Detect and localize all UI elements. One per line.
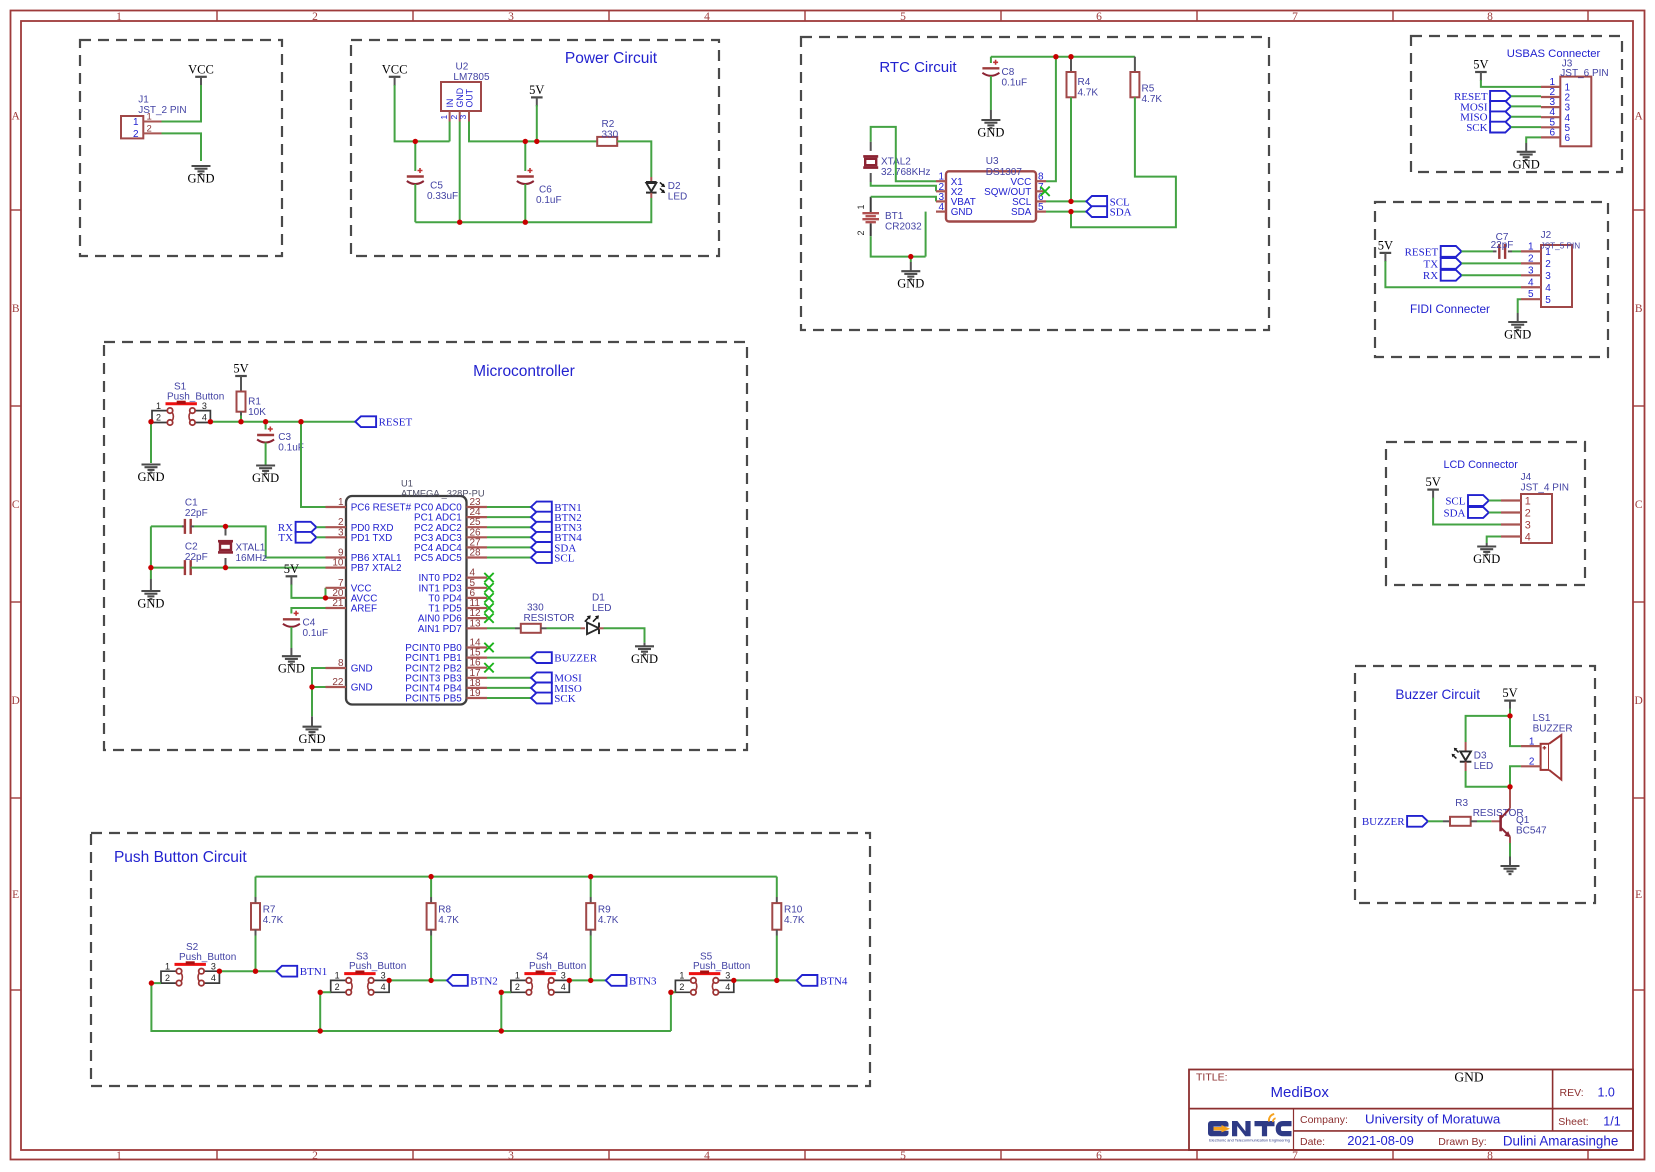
svg-text:Electronic and Telecommunicati: Electronic and Telecommunication Enginee… — [1209, 1137, 1290, 1142]
junction — [208, 419, 213, 424]
svg-text:CR2032: CR2032 — [885, 221, 922, 232]
net label BTN4 — [797, 975, 848, 987]
net label BTN3 — [606, 975, 657, 987]
wire U1 pin 17 to MOSI — [487, 677, 531, 679]
capacitor C2 — [185, 560, 191, 575]
title block — [1189, 1070, 1633, 1151]
svg-text:7: 7 — [1292, 1150, 1298, 1162]
svg-text:RESISTOR: RESISTOR — [524, 613, 575, 624]
LED D1 — [585, 615, 599, 634]
wire S2 to bottom bus — [151, 983, 671, 1031]
wire C1-C2 left join — [150, 526, 152, 579]
net label BTN3 micro pin 25 — [531, 522, 582, 534]
ground J4 — [1473, 547, 1500, 567]
svg-text:B: B — [12, 303, 20, 315]
svg-text:GND: GND — [897, 277, 924, 291]
svg-text:1: 1 — [1525, 495, 1531, 507]
junction — [428, 978, 433, 983]
wire VBAT — [871, 197, 936, 202]
wire D3 cathode to collector node — [1466, 771, 1510, 787]
junction — [1507, 784, 1512, 789]
resistor R1 — [237, 392, 246, 412]
svg-text:4.7K: 4.7K — [1078, 87, 1099, 98]
ground J2 — [1504, 322, 1531, 342]
capacitor C4 — [283, 611, 300, 627]
junction — [318, 990, 323, 995]
capacitor C6 0.1uF — [524, 141, 526, 171]
junction — [253, 969, 258, 974]
svg-text:J2: J2 — [1541, 230, 1552, 241]
ground C8 — [977, 120, 1004, 140]
wire TX to J2 — [1462, 262, 1522, 264]
svg-text:0.33uF: 0.33uF — [427, 191, 458, 202]
wire R8 bottom — [430, 936, 432, 981]
wire S2 out to BTN1 — [219, 970, 276, 972]
junction — [523, 220, 528, 225]
capacitor C5 0.33uF — [414, 141, 416, 171]
svg-text:5V: 5V — [529, 83, 544, 97]
svg-text:22: 22 — [332, 677, 344, 688]
wire J1 pin 2 to ground — [162, 133, 202, 161]
svg-text:AREF: AREF — [351, 604, 377, 615]
capacitor C2 22pF — [151, 567, 185, 569]
USBAS Connecter block — [1411, 36, 1622, 172]
svg-text:4: 4 — [725, 982, 730, 992]
Microcontroller block — [104, 342, 747, 750]
wire R5 to SDA net — [1071, 97, 1176, 227]
svg-text:2: 2 — [133, 129, 139, 140]
wire MOSI to J3 — [1511, 105, 1541, 107]
capacitor C7 22pF — [1462, 250, 1494, 252]
svg-text:JST_2 PIN: JST_2 PIN — [138, 105, 186, 116]
junction — [309, 684, 314, 689]
svg-text:GND: GND — [1454, 1070, 1483, 1085]
wire C1 to XTAL1 node and pin 9 — [194, 526, 326, 557]
svg-text:1: 1 — [156, 401, 161, 411]
svg-text:RESET: RESET — [1405, 246, 1439, 258]
svg-text:Push_Button: Push_Button — [693, 961, 750, 972]
svg-text:BTN3: BTN3 — [629, 975, 657, 987]
net label TX micro — [278, 532, 316, 544]
power 5V LCD — [1425, 475, 1440, 499]
junction — [223, 565, 228, 570]
svg-text:1: 1 — [515, 971, 520, 981]
wire R2 to D2 — [617, 141, 651, 177]
net label SCL RTC — [1086, 196, 1130, 208]
resistor R3 — [1450, 817, 1471, 826]
net label RESET USBAS — [1454, 91, 1511, 103]
svg-text:GND: GND — [187, 172, 214, 186]
svg-text:GND: GND — [298, 732, 325, 746]
wire RESET rail — [210, 421, 355, 423]
resistor R9 — [586, 903, 595, 930]
svg-text:E: E — [12, 889, 19, 901]
svg-text:PCINT5 PB5: PCINT5 PB5 — [405, 694, 462, 705]
svg-text:IN: IN — [445, 99, 455, 108]
svg-text:1: 1 — [1529, 737, 1535, 748]
net label SDA LCD — [1443, 507, 1488, 519]
svg-text:B: B — [1635, 303, 1643, 315]
svg-text:2: 2 — [156, 412, 161, 422]
svg-text:PD1 TXD: PD1 TXD — [351, 533, 393, 544]
svg-text:2: 2 — [515, 982, 520, 992]
net label BUZZER buzzer-circuit — [1362, 816, 1428, 828]
svg-text:OUT: OUT — [464, 88, 474, 107]
svg-text:1: 1 — [856, 204, 866, 209]
push button S3 — [331, 951, 407, 995]
capacitor C5 — [407, 168, 424, 184]
capacitor C3 — [257, 427, 274, 443]
wire pin 13 to resistor — [487, 627, 515, 629]
resistor R2 — [597, 137, 617, 146]
svg-text:MediBox: MediBox — [1271, 1084, 1330, 1101]
svg-text:1: 1 — [679, 971, 684, 981]
svg-text:2: 2 — [165, 973, 170, 983]
svg-text:10: 10 — [332, 558, 344, 569]
junction — [588, 874, 593, 879]
svg-text:RESET: RESET — [379, 417, 413, 429]
wire GND pin 8 — [312, 668, 326, 687]
svg-text:5: 5 — [900, 11, 906, 23]
svg-text:4: 4 — [211, 973, 216, 983]
wire to RTC ground — [910, 257, 912, 262]
wire U3 SDA to label — [1046, 211, 1086, 213]
svg-text:5V: 5V — [284, 562, 299, 576]
ground Q1 — [1501, 866, 1520, 874]
svg-text:8: 8 — [338, 658, 344, 669]
svg-text:Buzzer Circuit: Buzzer Circuit — [1395, 687, 1480, 702]
J1 connector block — [80, 40, 282, 256]
wire S1 to ground — [151, 422, 152, 463]
svg-text:SCK: SCK — [1466, 122, 1487, 134]
svg-text:3: 3 — [1525, 519, 1531, 531]
svg-text:Push_Button: Push_Button — [167, 391, 224, 402]
svg-text:BC547: BC547 — [1516, 825, 1547, 836]
svg-text:6: 6 — [1565, 133, 1571, 144]
svg-text:28: 28 — [470, 548, 482, 559]
no-connect U1 pin 5 — [484, 583, 493, 592]
junction — [148, 419, 153, 424]
svg-text:5V: 5V — [1473, 58, 1488, 72]
svg-text:2: 2 — [335, 982, 340, 992]
svg-text:Push_Button: Push_Button — [349, 961, 406, 972]
svg-text:R3: R3 — [1455, 798, 1468, 809]
buzzer LS1 — [1521, 713, 1573, 780]
Push Button Circuit block — [91, 833, 870, 1086]
wire AREF to C4 — [291, 608, 325, 614]
wire J3 pin 6 to ground — [1526, 137, 1541, 143]
power 5V avcc — [284, 562, 299, 586]
svg-text:SDA: SDA — [1011, 207, 1032, 218]
wire TX to pin 3 — [316, 536, 325, 538]
svg-text:4: 4 — [1525, 531, 1531, 543]
wire R7 top — [255, 877, 257, 897]
capacitor C8 — [982, 60, 999, 76]
capacitor C3 0.1uF — [265, 422, 267, 430]
capacitor C7 — [1499, 244, 1505, 259]
ground U1 — [298, 727, 325, 747]
svg-text:1: 1 — [116, 11, 122, 23]
wire U1 pin 26 to BTN4 — [487, 536, 531, 538]
ground D1 — [631, 646, 658, 666]
net label BTN1 — [276, 966, 327, 978]
wire R10 bottom — [776, 936, 778, 981]
svg-text:GND: GND — [951, 207, 973, 218]
svg-text:BTN4: BTN4 — [820, 975, 848, 987]
wire RESET to J3 — [1511, 95, 1541, 97]
wire 5V to J3 pin 1 — [1481, 80, 1541, 87]
wire 5V to J4 pin 3 — [1433, 498, 1501, 525]
net label SCK USBAS — [1466, 122, 1511, 134]
svg-text:4: 4 — [202, 412, 207, 422]
svg-text:2: 2 — [1528, 253, 1534, 264]
wire R8 top — [430, 877, 432, 897]
FIDI Connecter block — [1375, 202, 1608, 357]
wire GND pin 22 — [312, 687, 326, 716]
wire VCC to J1 pin 1 — [162, 85, 202, 122]
svg-text:5: 5 — [1038, 202, 1044, 213]
svg-text:5: 5 — [1545, 295, 1551, 306]
svg-text:4: 4 — [561, 982, 566, 992]
wire 5V down — [1509, 709, 1511, 716]
resistor R4 4.7K — [1070, 57, 1072, 72]
svg-text:1.0: 1.0 — [1598, 1086, 1615, 1100]
svg-text:6: 6 — [1096, 1150, 1102, 1162]
svg-text:C: C — [12, 499, 20, 511]
svg-text:JST_6 PIN: JST_6 PIN — [1560, 68, 1608, 79]
resistor R7 — [251, 903, 260, 930]
svg-text:3: 3 — [1545, 271, 1551, 282]
svg-text:1: 1 — [133, 117, 139, 128]
wire RESET drop to pin 1 — [301, 422, 326, 507]
net label RESET micro — [355, 416, 412, 428]
net label BTN2 — [447, 975, 498, 987]
svg-text:10K: 10K — [248, 407, 266, 418]
svg-text:0.1uF: 0.1uF — [1002, 77, 1028, 88]
IC U1 ATMEGA_328P-PU — [326, 479, 488, 705]
svg-text:GND: GND — [977, 126, 1004, 140]
junction — [1068, 199, 1073, 204]
junction — [413, 139, 418, 144]
junction — [318, 1028, 323, 1033]
wire to D3 anode — [1466, 716, 1510, 742]
wire U1 pin 23 to BTN1 — [487, 506, 531, 508]
svg-text:5: 5 — [900, 1150, 906, 1162]
push button S4 — [511, 951, 586, 995]
wire S4 out to BTN3 — [569, 979, 605, 981]
ground J3 — [1513, 152, 1540, 172]
svg-text:FIDI Connecter: FIDI Connecter — [1410, 302, 1490, 316]
transistor Q1 BC547 — [1491, 787, 1547, 843]
wire U1 pin 25 to BTN3 — [487, 526, 531, 528]
svg-text:2: 2 — [312, 11, 318, 23]
svg-text:3: 3 — [338, 527, 344, 538]
wire J4 pin 4 to ground — [1487, 537, 1501, 544]
svg-text:1: 1 — [116, 1150, 122, 1162]
power 5V micro — [233, 362, 248, 386]
svg-text:D: D — [1635, 695, 1643, 707]
net label SCL micro pin 28 — [531, 552, 575, 564]
wire battery to ground rail — [871, 236, 926, 256]
wire MISO to J3 — [1511, 116, 1541, 118]
svg-text:University of Moratuwa: University of Moratuwa — [1365, 1112, 1501, 1127]
svg-text:GND: GND — [1473, 552, 1500, 566]
svg-text:22pF: 22pF — [185, 508, 208, 519]
svg-text:6: 6 — [1096, 11, 1102, 23]
power VCC J1 — [188, 62, 214, 86]
junction — [217, 969, 222, 974]
svg-text:3: 3 — [508, 11, 514, 23]
power 5V FIDI — [1378, 238, 1393, 262]
svg-text:USBAS Connecter: USBAS Connecter — [1507, 48, 1601, 60]
junction — [149, 980, 154, 985]
svg-text:C: C — [1635, 499, 1643, 511]
svg-text:5: 5 — [1528, 289, 1534, 300]
wire RX to pin 2 — [316, 526, 325, 528]
ENTC logo — [1208, 1114, 1292, 1142]
svg-text:E: E — [1635, 889, 1642, 901]
svg-text:6: 6 — [1549, 127, 1555, 138]
crystal XTAL1 — [218, 541, 233, 552]
net label RESET FIDI — [1405, 246, 1462, 258]
svg-text:BTN1: BTN1 — [300, 966, 328, 978]
regulator U2 LM7805 — [439, 62, 490, 122]
svg-text:2: 2 — [1525, 507, 1531, 519]
capacitor C6 — [517, 168, 534, 184]
wire S4 to bottom bus — [501, 992, 511, 1031]
svg-text:4: 4 — [938, 202, 944, 213]
svg-text:PC6 RESET#: PC6 RESET# — [351, 503, 412, 514]
net label SCL LCD — [1445, 495, 1488, 507]
svg-text:REV:: REV: — [1560, 1087, 1584, 1099]
svg-text:4: 4 — [1528, 277, 1534, 288]
wire R4 to SCL net — [1070, 97, 1072, 201]
svg-text:4: 4 — [704, 11, 710, 23]
svg-text:4: 4 — [381, 982, 386, 992]
wire U2 GND pin down — [459, 122, 461, 223]
wire S5 to bottom bus — [671, 992, 676, 1031]
no-connect U1 pin 4 — [484, 573, 493, 582]
svg-text:GND: GND — [137, 597, 164, 611]
net label SDA RTC — [1086, 206, 1131, 218]
wire 5V to AVCC/VCC — [291, 585, 325, 598]
wire S5 out to BTN4 — [734, 979, 797, 981]
svg-text:3: 3 — [458, 115, 468, 120]
svg-text:VCC: VCC — [382, 62, 408, 76]
junction — [1507, 713, 1512, 718]
wire D1 to ground — [604, 628, 645, 642]
svg-text:Microcontroller: Microcontroller — [473, 363, 575, 380]
net label RX micro — [278, 522, 317, 534]
svg-text:5V: 5V — [1425, 475, 1440, 489]
svg-text:Push_Button: Push_Button — [179, 952, 236, 963]
svg-text:U2: U2 — [456, 62, 469, 73]
svg-text:2: 2 — [679, 982, 684, 992]
ground S1 — [137, 465, 164, 485]
svg-text:5V: 5V — [233, 362, 248, 376]
crystal XTAL2 32.768KHz — [870, 142, 872, 151]
power VCC power-circuit — [382, 62, 408, 86]
wire C2 to pin 10 — [191, 567, 326, 569]
svg-text:U3: U3 — [986, 156, 999, 167]
power 5V USBAS — [1473, 58, 1488, 82]
wire U1 pin 24 to BTN2 — [487, 516, 531, 518]
junction — [428, 874, 433, 879]
wire D2 to bottom rail — [415, 198, 651, 222]
wire R9 top — [590, 877, 592, 897]
svg-text:VCC: VCC — [188, 62, 214, 76]
wire top rail — [256, 876, 777, 878]
svg-text:AIN1 PD7: AIN1 PD7 — [418, 624, 462, 635]
svg-text:TITLE:: TITLE: — [1196, 1072, 1228, 1084]
svg-text:5V: 5V — [1502, 686, 1517, 700]
junction — [457, 220, 462, 225]
wire Q1 emitter to ground — [1509, 843, 1511, 857]
svg-text:A: A — [12, 111, 21, 123]
svg-text:2021-08-09: 2021-08-09 — [1347, 1133, 1414, 1148]
net label BTN1 micro pin 23 — [531, 502, 582, 514]
push button S5 — [675, 951, 750, 995]
svg-text:Company:: Company: — [1300, 1114, 1348, 1126]
connector J3 JST_6 PIN — [1541, 58, 1609, 146]
wire U3 SCL to label — [1046, 200, 1086, 202]
svg-text:1: 1 — [338, 497, 344, 508]
svg-text:D: D — [12, 695, 20, 707]
svg-text:GND: GND — [631, 652, 658, 666]
resistor R10 — [772, 903, 781, 930]
svg-text:22pF: 22pF — [1491, 240, 1514, 251]
net label BTN2 micro pin 24 — [531, 512, 582, 524]
svg-text:4.7K: 4.7K — [263, 915, 284, 926]
junction — [1053, 54, 1058, 59]
svg-text:8: 8 — [1487, 1150, 1493, 1162]
svg-text:GND: GND — [1504, 328, 1531, 342]
wire SCK to J3 — [1511, 126, 1541, 128]
svg-text:SDA: SDA — [1110, 207, 1132, 219]
svg-text:7: 7 — [1292, 11, 1298, 23]
svg-text:PB7 XTAL2: PB7 XTAL2 — [351, 563, 402, 574]
svg-text:2: 2 — [147, 123, 152, 134]
svg-text:4: 4 — [1545, 283, 1551, 294]
net label BUZZER micro pin 15 — [531, 652, 598, 664]
crystal XTAL1 16MHz — [225, 526, 227, 535]
svg-text:TX: TX — [278, 532, 293, 544]
junction — [323, 595, 328, 600]
wire U1 pin 28 to SCL — [487, 557, 531, 559]
junction — [588, 978, 593, 983]
junction — [223, 524, 228, 529]
junction — [731, 978, 736, 983]
ground C4 — [278, 656, 305, 676]
svg-text:SCK: SCK — [554, 693, 575, 705]
LED D2 — [646, 182, 665, 193]
no-connect U3 SQW/OUT — [1040, 187, 1049, 196]
junction — [534, 139, 539, 144]
svg-text:Push_Button: Push_Button — [529, 961, 586, 972]
Power Circuit block — [351, 40, 719, 256]
wire R7 bottom — [255, 936, 257, 972]
svg-text:330: 330 — [602, 129, 619, 140]
junction — [523, 139, 528, 144]
wire S3 out to BTN2 — [389, 979, 447, 981]
net label RX FIDI — [1423, 270, 1462, 282]
wire to buzzer pin 1 — [1510, 716, 1521, 746]
svg-text:1: 1 — [165, 961, 170, 971]
svg-text:Power Circuit: Power Circuit — [565, 50, 658, 67]
junction — [386, 978, 391, 983]
svg-text:JST_4 PIN: JST_4 PIN — [1521, 482, 1569, 493]
svg-text:RTC Circuit: RTC Circuit — [879, 59, 957, 76]
